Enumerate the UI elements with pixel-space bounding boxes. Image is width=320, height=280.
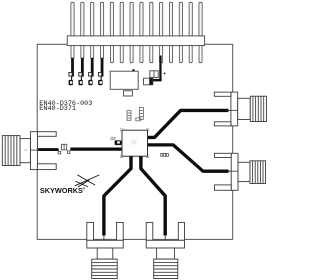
header pins below bar: [71, 46, 202, 63]
SMA connector J1 (left edge): [2, 132, 56, 170]
wire: left trace segment from J1: [31, 149, 41, 151]
wire: trace to bottom connector J5: [104, 156, 131, 235]
pad: [68, 151, 70, 154]
node marker: [164, 73, 166, 75]
Skyworks wings logo: [75, 175, 100, 187]
wire: header pin 4 black trace + resistor R4 footprint: [98, 58, 103, 86]
capacitor C4 (small outline near U1): [111, 137, 115, 140]
SMA connector J5 (bottom edge left): [87, 222, 123, 278]
SMA connector J6 (bottom edge right): [146, 222, 184, 278]
wire: header pin 1 black trace + resistor R1 footprint: [69, 58, 74, 86]
SMA connector J2 (top right edge): [214, 92, 266, 126]
wire: header pin 3 black trace + resistor R3 footprint: [88, 58, 93, 86]
pad: [58, 151, 61, 154]
board outline: [37, 44, 233, 239]
wire: trace to bottom connector J6: [141, 156, 165, 235]
component D1 (black blob with pad): [115, 140, 122, 145]
connector J3 header bar: [67, 36, 204, 46]
capacitor C2 (two-pad): [144, 78, 153, 85]
via ladder 1: [127, 111, 131, 121]
svg-text:EN40-D371: EN40-D371: [39, 105, 76, 113]
wire: RF trace to bottom-right connector J4: [148, 145, 229, 171]
wire: header pin 10 black trace (L-shape): [153, 56, 162, 82]
SMA connector J4 (bottom right edge): [215, 153, 266, 190]
capacitor C1 (two-pad): [150, 71, 158, 78]
wire: RF trace to top-right connector J2: [148, 110, 228, 137]
node: three test pads: [161, 153, 169, 156]
wire: header pin 2 black trace + resistor R2 footprint: [78, 58, 83, 86]
op-amp U1 (center IC): [121, 129, 149, 158]
component U2 (large rectangle, regulator): [110, 69, 138, 96]
svg-text:J1: J1: [24, 148, 28, 152]
via ladder 2: [136, 107, 144, 120]
svg-text:SKYWORKS: SKYWORKS: [40, 186, 83, 195]
wire: left trace segment to U1: [70, 148, 122, 151]
center pin lines over connectors: [30, 110, 238, 171]
capacitor C3: [62, 144, 67, 150]
header pins above bar: [71, 2, 202, 36]
